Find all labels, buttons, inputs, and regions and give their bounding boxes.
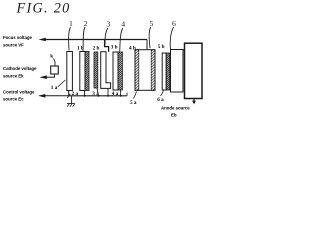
wire: hatched bar stub to bus — [97, 88, 99, 96]
wire: cylinder to anode box — [183, 49, 185, 51]
junction dot — [120, 95, 122, 97]
leader to electrode 3 — [105, 28, 108, 46]
electrode 6 plate (white part) — [162, 53, 166, 90]
svg-text:Cathode voltage: Cathode voltage — [3, 66, 37, 71]
wire: electrode2 stub to bus — [84, 91, 86, 96]
svg-text:2: 2 — [84, 19, 88, 28]
junction dot — [84, 95, 86, 97]
electrode 6 wide cylinder plate — [171, 50, 184, 93]
label: Focus voltage source VF — [3, 35, 32, 48]
leader to electrode 4 — [120, 28, 123, 52]
wire: cathode voltage Ek with left arrowhead — [40, 75, 55, 79]
svg-text:FIG. 20: FIG. 20 — [16, 0, 71, 16]
svg-text:6 a: 6 a — [157, 97, 164, 103]
electrode 3 hatched bar — [94, 52, 98, 88]
cathode top lead — [54, 59, 56, 67]
svg-text:source Ek: source Ek — [3, 73, 24, 78]
wire: focus voltage VF line with left arrowhead — [39, 38, 148, 42]
svg-text:1 a: 1 a — [51, 85, 58, 91]
svg-text:Anode source: Anode source — [161, 105, 190, 110]
junction at ground node — [67, 94, 70, 98]
electrode 4 plate (white part) — [113, 52, 118, 90]
anode box — [185, 43, 203, 98]
svg-text:Focus voltage: Focus voltage — [3, 35, 32, 40]
electrode 2 plate (white part) — [80, 52, 85, 91]
leader to electrode 2 — [83, 27, 85, 51]
svg-text:2 b: 2 b — [93, 45, 100, 51]
wire: electrode4 stub to bus — [120, 90, 122, 96]
svg-text:6: 6 — [172, 19, 176, 28]
wire: anode source Eb down arrow — [192, 99, 196, 105]
label: Anode source Eb — [161, 105, 190, 117]
svg-text:5 a: 5 a — [130, 100, 137, 106]
svg-text:source Ec: source Ec — [3, 97, 24, 102]
wire: electrode3 stub to bus — [107, 88, 109, 95]
electrode 2 hatched part — [85, 52, 89, 91]
junction dot — [98, 95, 100, 97]
leader to electrode 6 — [170, 27, 173, 52]
leader to electrode 5 — [149, 27, 151, 48]
svg-text:k: k — [50, 54, 53, 60]
electrode 5 box — [135, 50, 155, 91]
leader 1a — [58, 80, 66, 87]
wire: control voltage Ec with left arrowhead — [38, 94, 69, 98]
cathode K box — [51, 66, 59, 74]
svg-text:Eb: Eb — [171, 112, 177, 117]
wire: ground bus — [69, 95, 127, 97]
wire: bus end tick — [126, 93, 128, 96]
cathode bottom lead — [54, 74, 56, 77]
svg-text:1: 1 — [69, 19, 73, 28]
electrode 6 hatched part — [166, 53, 170, 90]
ground — [67, 96, 75, 107]
label: Control voltage source Ec — [3, 90, 35, 102]
wire: electrode1 stub to bus — [68, 91, 70, 96]
junction dot — [107, 95, 109, 97]
svg-text:Control voltage: Control voltage — [3, 90, 35, 95]
electrode 3 boot-shaped plate — [101, 52, 111, 89]
svg-text:source VF: source VF — [3, 42, 24, 47]
electrode 3 lead from VF line — [105, 40, 109, 52]
svg-text:3: 3 — [106, 20, 110, 29]
svg-text:5: 5 — [149, 19, 153, 28]
leader to electrode 1 — [69, 27, 71, 51]
label: Cathode voltage source Ek — [3, 66, 37, 79]
electrode 4 hatched part — [118, 52, 122, 90]
wire: VF drop to electrode 5 box — [146, 40, 148, 51]
svg-text:4: 4 — [121, 20, 125, 29]
electrode 1 plate (G1) — [67, 52, 73, 91]
svg-text:3 b: 3 b — [111, 44, 118, 50]
leader 6a — [161, 91, 164, 97]
svg-text:1 b: 1 b — [77, 45, 84, 51]
svg-text:5 b: 5 b — [158, 44, 165, 50]
leader 5a — [134, 92, 137, 99]
